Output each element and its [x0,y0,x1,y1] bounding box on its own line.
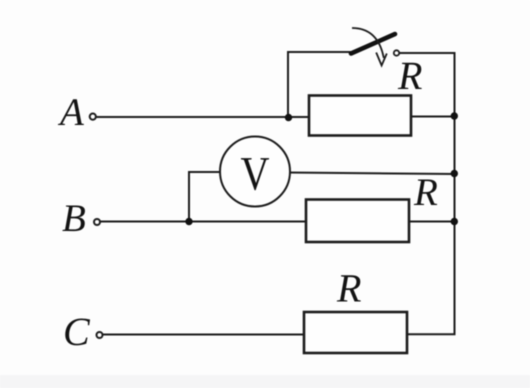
svg-text:R: R [336,266,361,311]
svg-text:V: V [241,148,270,201]
svg-text:A: A [57,91,84,134]
svg-text:C: C [63,309,91,354]
svg-text:B: B [62,197,86,240]
svg-text:R: R [397,53,422,98]
svg-text:R: R [413,171,438,214]
